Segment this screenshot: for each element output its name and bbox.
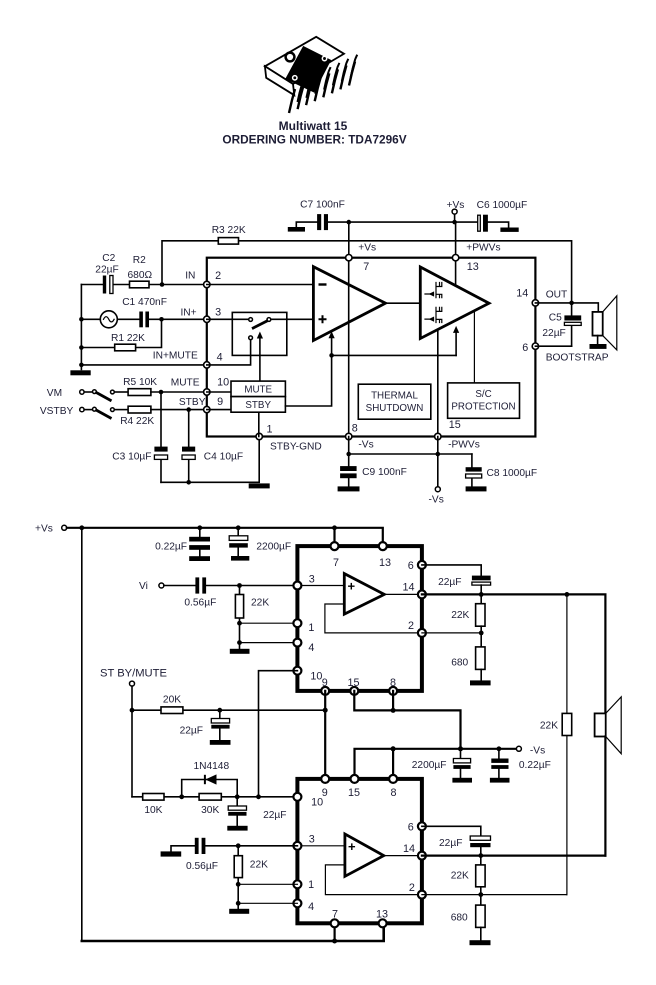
node pin1 line lower junction bbox=[236, 882, 241, 887]
svg-text:+Vs: +Vs bbox=[35, 523, 53, 534]
pin 14 upper bbox=[418, 590, 426, 598]
svg-text:22µF: 22µF bbox=[542, 328, 565, 339]
tab top face bbox=[265, 37, 344, 84]
svg-text:+Vs: +Vs bbox=[447, 200, 465, 211]
transistor upper mos glyph bbox=[425, 283, 442, 298]
node diode right junction bbox=[235, 794, 240, 799]
svg-text:1: 1 bbox=[308, 879, 314, 891]
svg-text:C6 1000µF: C6 1000µF bbox=[477, 200, 528, 211]
node pin15 rail junction bbox=[436, 452, 441, 457]
pin 10 lower bbox=[293, 793, 301, 801]
svg-text:22K: 22K bbox=[451, 870, 469, 881]
pin 10 bbox=[204, 389, 210, 395]
node IC2 pin8 junction bbox=[391, 746, 396, 751]
pin 6 bbox=[532, 343, 538, 349]
svg-text:+Vs: +Vs bbox=[358, 243, 376, 254]
svg-text:6: 6 bbox=[408, 560, 414, 572]
terminal -Vs bridge bbox=[516, 745, 545, 756]
wire pin9 bus bbox=[324, 691, 326, 779]
IC block bridge upper TDA7296 bbox=[297, 546, 422, 691]
svg-text:MUTE: MUTE bbox=[171, 378, 200, 389]
wire +Vs top rail bbox=[67, 528, 383, 546]
pin 1 lower bbox=[293, 880, 301, 888]
wire left rail bbox=[80, 285, 82, 370]
block STBY bbox=[231, 397, 285, 413]
pin 8 lower bbox=[389, 775, 397, 783]
node junction pin7 rail bbox=[347, 220, 352, 225]
wire IN line bbox=[81, 284, 206, 286]
node 2200uF junction bbox=[236, 525, 241, 530]
svg-text:13: 13 bbox=[467, 261, 479, 273]
resistor R2 680ohm bbox=[127, 255, 152, 288]
wire bootstrap bbox=[535, 345, 571, 347]
svg-text:7: 7 bbox=[363, 261, 369, 273]
capacitor C6 1000uF bbox=[477, 200, 528, 232]
node +Vs left junction bbox=[79, 525, 84, 530]
capacitor C8 1000uF bbox=[466, 454, 538, 491]
svg-text:13: 13 bbox=[376, 908, 388, 920]
node Vi2 junction bbox=[236, 843, 241, 848]
svg-text:680Ω: 680Ω bbox=[127, 270, 152, 281]
capacitor C4 10uF bbox=[182, 410, 243, 483]
wire IC1 pin7 stub bbox=[333, 528, 335, 546]
pin 15 bbox=[435, 433, 441, 439]
op-amp U1 input stage bbox=[313, 267, 385, 341]
capacitor 0.22uF top left bbox=[155, 528, 210, 561]
svg-text:10: 10 bbox=[217, 377, 229, 389]
pin 14 bbox=[532, 300, 538, 306]
wire pin6 bootstrap lower bbox=[422, 826, 481, 836]
tab hole bbox=[286, 53, 295, 62]
switch VM bbox=[47, 388, 128, 401]
wire pin1 line lower bbox=[238, 883, 297, 885]
svg-text:0.22µF: 0.22µF bbox=[519, 760, 551, 771]
svg-text:15: 15 bbox=[449, 419, 461, 431]
package Multiwatt15 drawing bbox=[265, 37, 357, 113]
resistor R3 22K bbox=[162, 225, 572, 303]
pin 8 upper bbox=[389, 687, 397, 695]
capacitor C5 22uF bbox=[542, 303, 581, 346]
signal generator bbox=[100, 311, 117, 328]
svg-text:14: 14 bbox=[403, 843, 415, 855]
resistor 680 upper bbox=[451, 633, 490, 686]
svg-text:C3 10µF: C3 10µF bbox=[112, 452, 151, 463]
capacitor 22uF bootstrap upper bbox=[438, 576, 491, 595]
svg-text:22µF: 22µF bbox=[95, 265, 118, 276]
pin 15 lower bbox=[351, 775, 359, 783]
svg-text:0.56µF: 0.56µF bbox=[184, 597, 216, 608]
wire pin13 internal bbox=[455, 258, 457, 286]
resistor 680 lower bbox=[451, 895, 491, 946]
speaker bridge bbox=[595, 697, 622, 754]
wire bias line bbox=[332, 354, 457, 356]
node C4 top junction bbox=[186, 407, 191, 412]
node feedback junction lower bbox=[478, 892, 483, 897]
svg-text:BOOTSTRAP: BOOTSTRAP bbox=[546, 353, 609, 364]
svg-text:ST BY/MUTE: ST BY/MUTE bbox=[100, 668, 167, 680]
node bias junction bbox=[329, 353, 334, 358]
svg-text:-Vs: -Vs bbox=[429, 495, 444, 506]
svg-text:10: 10 bbox=[310, 670, 322, 682]
svg-text:R3 22K: R3 22K bbox=[212, 225, 246, 236]
ground left rail bbox=[70, 370, 90, 375]
capacitor C1 470nF bbox=[122, 297, 167, 327]
pin 10 upper bbox=[293, 667, 301, 675]
block THERMAL SHUTDOWN bbox=[358, 384, 431, 419]
wire -Vs rail C bbox=[355, 749, 519, 779]
wire STBY block to pin1 bbox=[258, 412, 260, 436]
node IN+ junction bbox=[159, 317, 164, 322]
switch VSTBY bbox=[40, 406, 128, 418]
svg-text:1: 1 bbox=[308, 622, 314, 634]
pin 13 upper bbox=[379, 542, 387, 550]
tab left side thickness bbox=[265, 66, 294, 95]
node pin1 line junction bbox=[237, 621, 242, 626]
svg-text:30K: 30K bbox=[201, 805, 219, 816]
svg-text:9: 9 bbox=[322, 677, 328, 689]
capacitor 0.56uF lower bbox=[186, 838, 297, 872]
wire pin8 stub upper bbox=[392, 691, 394, 711]
speaker top schematic bbox=[590, 296, 617, 350]
wire IN+MUTE line bbox=[81, 364, 206, 366]
svg-text:13: 13 bbox=[379, 557, 391, 569]
resistor 30K bbox=[199, 794, 221, 817]
svg-text:14: 14 bbox=[516, 287, 528, 299]
pin 4 lower bbox=[293, 899, 301, 907]
op-amp bridge lower bbox=[345, 834, 384, 876]
svg-text:1: 1 bbox=[267, 424, 273, 436]
capacitor C3 10uF bbox=[112, 392, 167, 482]
block MUTE bbox=[231, 381, 285, 397]
wire opamp1 to power stage bbox=[386, 302, 421, 304]
pin 7 bbox=[346, 255, 352, 261]
svg-text:2: 2 bbox=[215, 270, 221, 282]
svg-text:R2: R2 bbox=[133, 255, 146, 266]
node pin8 rail junction bbox=[346, 452, 351, 457]
svg-text:10K: 10K bbox=[144, 805, 162, 816]
svg-text:VSTBY: VSTBY bbox=[40, 406, 74, 417]
svg-text:6: 6 bbox=[522, 342, 528, 354]
node OUT junction bbox=[569, 301, 574, 306]
pin 14 lower bbox=[418, 852, 426, 860]
pins front row bbox=[289, 62, 355, 114]
resistor 22K input shunt bbox=[235, 586, 269, 643]
capacitor 2200uF bridge bbox=[412, 749, 472, 783]
svg-text:C4 10µF: C4 10µF bbox=[204, 452, 243, 463]
pin 4 bbox=[204, 362, 210, 368]
svg-text:3: 3 bbox=[215, 306, 221, 318]
node source left junction bbox=[79, 317, 84, 322]
node Vi junction bbox=[237, 583, 242, 588]
pin 4 upper bbox=[293, 639, 301, 647]
svg-text:7: 7 bbox=[333, 557, 339, 569]
wire speaker to OUT2 bbox=[604, 737, 606, 856]
wire bottom +Vs rail bbox=[82, 923, 384, 941]
wire opamp upper feedback bbox=[325, 604, 422, 633]
wire pin4 line bbox=[240, 642, 298, 644]
svg-text:-PWVs: -PWVs bbox=[448, 440, 480, 451]
resistor 22K feedback upper bbox=[451, 594, 485, 633]
resistor 22K feedback lower bbox=[451, 856, 485, 895]
resistor R4 22K bbox=[120, 406, 207, 427]
svg-text:STBY: STBY bbox=[179, 397, 206, 408]
wire IC2 pin7 stub bbox=[334, 923, 336, 941]
resistor 20K bbox=[132, 694, 220, 713]
resistor 22K bridge bbox=[540, 594, 572, 894]
block S/C PROTECTION bbox=[448, 383, 520, 418]
svg-text:3: 3 bbox=[309, 834, 315, 846]
svg-text:+PWVs: +PWVs bbox=[466, 243, 500, 254]
wire pin2 line lower bbox=[422, 894, 567, 896]
node C4 bottom junction bbox=[186, 480, 191, 485]
wire pin3 to opamp lower bbox=[297, 845, 345, 847]
node pin4 line lower junction bbox=[236, 901, 241, 906]
capacitor 0.22uF bridge bbox=[490, 749, 551, 783]
wire opamp upper output bbox=[384, 593, 422, 595]
svg-text:8: 8 bbox=[352, 423, 358, 435]
pin 6 upper bbox=[418, 561, 426, 569]
node feedback junction upper bbox=[479, 631, 484, 636]
svg-text:C7 100nF: C7 100nF bbox=[300, 199, 345, 210]
terminal Vi bbox=[139, 581, 164, 592]
svg-text:STBY-GND: STBY-GND bbox=[270, 441, 322, 452]
pin 7 upper bbox=[331, 542, 339, 550]
node IN+MUTE left junction bbox=[79, 363, 84, 368]
pin 9 lower bbox=[321, 775, 329, 783]
ground for C6 bbox=[488, 222, 519, 232]
svg-text:22µF: 22µF bbox=[438, 577, 461, 588]
svg-text:MUTE: MUTE bbox=[244, 385, 272, 396]
pin 2 bbox=[204, 281, 210, 287]
svg-text:VM: VM bbox=[47, 388, 62, 399]
svg-text:0.56µF: 0.56µF bbox=[186, 861, 218, 872]
terminal ST BY/MUTE bbox=[100, 668, 167, 797]
wire IN+ line bbox=[81, 318, 206, 320]
body hole left bbox=[293, 76, 297, 80]
mute switch box bbox=[207, 312, 314, 381]
svg-text:22K: 22K bbox=[540, 720, 558, 731]
wire mute vertical to pin10 bbox=[259, 671, 298, 797]
svg-text:-Vs: -Vs bbox=[530, 745, 545, 756]
IC block bridge lower TDA7296 bbox=[297, 779, 422, 923]
wire IC2 pin8 stub bbox=[392, 749, 394, 779]
wire OUT2 line bbox=[422, 854, 606, 856]
svg-text:22µF: 22µF bbox=[180, 725, 203, 736]
pin 3 upper bbox=[293, 582, 301, 590]
node 0.22uF junction bbox=[197, 525, 202, 530]
node pin4 line junction bbox=[237, 640, 242, 645]
resistor R5 10K bbox=[123, 377, 207, 395]
svg-text:20K: 20K bbox=[163, 694, 181, 705]
svg-text:4: 4 bbox=[217, 351, 223, 363]
wire pin9 to STBY block bbox=[207, 409, 231, 411]
wire sc protection link bbox=[473, 311, 475, 383]
wire OUT line bbox=[535, 303, 598, 312]
svg-text:22K: 22K bbox=[250, 859, 268, 870]
svg-text:C9 100nF: C9 100nF bbox=[362, 467, 407, 478]
svg-text:2200µF: 2200µF bbox=[412, 760, 447, 771]
node pin8 link junction bbox=[391, 708, 396, 713]
ground pin1 bbox=[249, 483, 270, 488]
pin 15 upper bbox=[350, 687, 358, 695]
node bootstrap junction upper bbox=[479, 592, 484, 597]
wire pin15 internal bbox=[437, 330, 439, 437]
node pin7 rail junction bottom bbox=[332, 525, 337, 530]
pin 13 lower bbox=[379, 919, 387, 927]
svg-text:22µF: 22µF bbox=[263, 810, 286, 821]
node mute vertical junction bbox=[256, 794, 261, 799]
power amp output stage bbox=[420, 267, 489, 339]
svg-text:2: 2 bbox=[409, 882, 415, 894]
pin 3 lower bbox=[293, 842, 301, 850]
svg-text:7: 7 bbox=[332, 908, 338, 920]
node 0.22uF bridge junction bbox=[497, 746, 502, 751]
svg-text:R4 22K: R4 22K bbox=[120, 416, 154, 427]
node diode left junction bbox=[179, 794, 184, 799]
svg-text:680: 680 bbox=[451, 657, 468, 668]
ground input lower bbox=[161, 846, 195, 857]
svg-text:4: 4 bbox=[308, 901, 314, 913]
wire -Vs link pins 15 8 bbox=[354, 691, 460, 749]
wire pin7 to rail bbox=[348, 222, 350, 258]
resistor 22K input lower bbox=[234, 846, 268, 904]
pins back row bbox=[298, 55, 358, 102]
pin 7 lower bbox=[331, 919, 339, 927]
node 20K junction bbox=[217, 708, 222, 713]
node stby junction bbox=[323, 708, 328, 713]
svg-text:THERMAL: THERMAL bbox=[371, 390, 418, 401]
pin 2 upper bbox=[418, 629, 426, 637]
svg-text:IN+: IN+ bbox=[180, 307, 196, 318]
svg-text:STBY: STBY bbox=[245, 400, 271, 411]
capacitor 22uF bootstrap lower bbox=[439, 836, 491, 856]
wire stby link B bbox=[220, 709, 325, 711]
terminal +Vs bbox=[447, 200, 465, 222]
pin 13 bbox=[452, 255, 458, 261]
pin 9 bbox=[204, 406, 210, 412]
node IN junction bbox=[160, 282, 165, 287]
pin 3 bbox=[204, 316, 210, 322]
wire pin13 to rail bbox=[455, 222, 457, 258]
wire opamp lower output bbox=[384, 855, 422, 857]
svg-text:SHUTDOWN: SHUTDOWN bbox=[366, 403, 424, 414]
node IC2 pin7 rail junction bbox=[332, 939, 337, 944]
terminal -Vs bbox=[429, 454, 444, 506]
capacitor 22uF stby bbox=[180, 710, 231, 745]
svg-text:0.22µF: 0.22µF bbox=[155, 541, 187, 552]
capacitor C7 100nF bbox=[300, 199, 345, 230]
node stby mute junction bbox=[130, 708, 135, 713]
terminal +Vs bottom bbox=[35, 523, 67, 534]
svg-text:PROTECTION: PROTECTION bbox=[451, 402, 515, 413]
svg-text:9: 9 bbox=[217, 396, 223, 408]
svg-text:10: 10 bbox=[311, 797, 323, 809]
op-amp bridge upper bbox=[344, 574, 384, 615]
arrow bias opamp1 bbox=[329, 331, 335, 355]
svg-text:680: 680 bbox=[451, 912, 468, 923]
resistor R1 22K bbox=[81, 319, 161, 351]
wire pin6 bootstrap upper bbox=[422, 565, 481, 576]
svg-text:OUT: OUT bbox=[546, 290, 568, 301]
wire pin1 line bbox=[240, 622, 298, 624]
wire mute line 10K 30K bbox=[132, 796, 297, 798]
svg-text:+: + bbox=[348, 579, 356, 594]
svg-text:22K: 22K bbox=[251, 597, 269, 608]
svg-text:4: 4 bbox=[308, 642, 314, 654]
capacitor 22uF mute bbox=[227, 797, 286, 831]
ground for C7 bbox=[288, 222, 317, 232]
svg-text:22K: 22K bbox=[451, 610, 469, 621]
svg-text:14: 14 bbox=[403, 582, 415, 594]
plastic body bbox=[286, 47, 331, 92]
arrow bias opamp2 bbox=[453, 326, 459, 356]
wire pin7 to pin8 vertical bbox=[348, 258, 350, 437]
node bridge junction bbox=[565, 592, 570, 597]
pin 8 bbox=[346, 433, 352, 439]
wire top rail bbox=[328, 221, 478, 223]
wire -Vs rail below IC bbox=[349, 437, 472, 455]
pin 2 lower bbox=[418, 891, 426, 899]
svg-text:6: 6 bbox=[408, 822, 414, 834]
svg-text:2200µF: 2200µF bbox=[256, 541, 291, 552]
svg-text:3: 3 bbox=[309, 573, 315, 585]
wire STBY block to bias bbox=[285, 355, 331, 406]
svg-text:15: 15 bbox=[348, 787, 360, 799]
node bootstrap junction lower bbox=[478, 853, 483, 858]
body hole right bbox=[322, 56, 326, 60]
diode 1N4148 bbox=[182, 761, 238, 797]
pin 6 lower bbox=[418, 822, 426, 830]
svg-text:8: 8 bbox=[391, 787, 397, 799]
node C3 top junction bbox=[159, 390, 164, 395]
node R1 left junction bbox=[79, 345, 84, 350]
svg-text:15: 15 bbox=[348, 677, 360, 689]
svg-text:22µF: 22µF bbox=[439, 838, 462, 849]
node junction +Vs rail bbox=[452, 220, 457, 225]
transistor lower mos glyph bbox=[425, 307, 442, 322]
svg-text:8: 8 bbox=[390, 677, 396, 689]
svg-text:IN+MUTE: IN+MUTE bbox=[153, 351, 198, 362]
node -Vs descent junction bbox=[458, 746, 463, 751]
ground input divider lower bbox=[229, 903, 249, 914]
svg-text:+: + bbox=[348, 839, 356, 854]
ground pin1 pin4 bbox=[230, 643, 250, 654]
svg-text:-Vs: -Vs bbox=[358, 440, 373, 451]
svg-text:C2: C2 bbox=[102, 253, 115, 264]
pin 1 bbox=[256, 433, 262, 439]
wire pin10 to MUTE block bbox=[207, 391, 231, 393]
svg-text:C5: C5 bbox=[549, 312, 562, 323]
capacitor C2 22uF bbox=[95, 253, 118, 294]
svg-text:Vi: Vi bbox=[139, 581, 148, 592]
capacitor 2200uF top bbox=[229, 528, 291, 561]
svg-text:Multiwatt 15: Multiwatt 15 bbox=[279, 119, 348, 133]
svg-text:2: 2 bbox=[408, 620, 414, 632]
wire opamp lower feedback bbox=[325, 865, 422, 895]
IC block TDA7296 bbox=[207, 258, 536, 437]
capacitor C9 100nF bbox=[338, 454, 407, 491]
svg-text:S/C: S/C bbox=[475, 389, 491, 400]
wire pin3 to opamp upper bbox=[297, 585, 344, 587]
resistor 10K bbox=[143, 794, 164, 817]
svg-text:1N4148: 1N4148 bbox=[193, 761, 229, 772]
wire left +Vs vertical bbox=[81, 528, 83, 941]
wire OUT1 line bbox=[422, 594, 606, 713]
svg-text:IN: IN bbox=[185, 271, 195, 282]
pin 9 upper bbox=[321, 687, 329, 695]
svg-text:C1 470nF: C1 470nF bbox=[122, 297, 167, 308]
wire pin2 line upper bbox=[422, 632, 481, 634]
